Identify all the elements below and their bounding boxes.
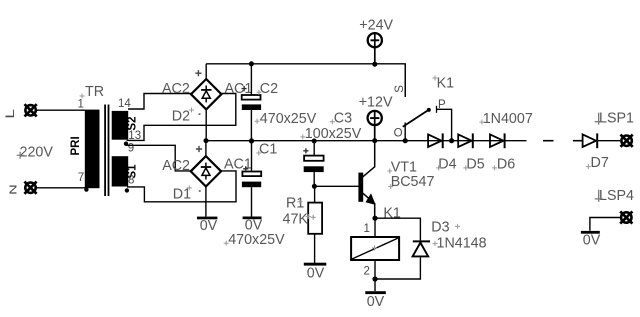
svg-text:8: 8 [128,175,134,187]
origin cross value C3 [300,134,305,139]
svg-text:D5: D5 [466,157,484,173]
wire +12V stub [374,111,376,140]
diode D4 [428,133,443,148]
polarity dot pin 8 [125,188,129,192]
svg-text:D4: D4 [438,157,456,173]
svg-text:47K: 47K [283,212,309,228]
svg-text:R1: R1 [286,196,304,212]
svg-text:D3: D3 [431,220,449,236]
relay contact K1 S stub [404,64,406,97]
svg-text:+12V: +12V [359,94,393,110]
origin cross C2 [256,90,261,95]
junction dot C1 top [249,138,254,143]
terminal pad L [25,104,37,116]
dash of broken wire [543,140,554,142]
svg-text:S2: S2 [127,117,139,131]
relay contact arm [403,110,429,127]
svg-text:+24V: +24V [359,18,393,34]
transistor VT1 [358,141,374,219]
origin cross D6 [492,165,497,170]
terminal pad N [24,182,36,194]
wire L to TR pin1 [37,109,86,111]
junction dot emitter node [372,216,377,221]
svg-text:1N4148: 1N4148 [437,235,487,251]
junction dot coil bottom [372,276,377,281]
origin cross value C2 [255,119,260,124]
svg-text:N: N [8,184,19,194]
junction dot +12V rail [372,138,377,143]
wire C3 to VT1 base [314,185,359,187]
wire D1 plus up to +12V node [205,141,207,156]
svg-text:D7: D7 [591,155,609,171]
polarity dot pin 13 [124,142,128,146]
origin cross coil [372,246,377,251]
bridge rectifier D2 [191,79,221,109]
coil diagonal [352,238,398,259]
diode D6 [490,133,505,148]
svg-text:470x25V: 470x25V [228,232,285,248]
svg-text:C3: C3 [334,111,352,127]
wire emitter node to coil pin 1 [374,218,376,237]
polarity + of C1 [243,166,248,171]
wire D2 plus to +24V rail [205,64,207,79]
power symbol +12V [368,111,382,125]
origin cross D2 [189,108,194,113]
wire coil pin 2 down [374,260,376,279]
svg-text:LSP1: LSP1 [599,111,634,127]
svg-text:AC2: AC2 [162,158,190,174]
origin cross VT1 [387,169,392,174]
relay contact O leg [404,123,406,141]
svg-text:0V: 0V [200,218,218,234]
svg-text:0V: 0V [583,232,601,248]
wire D7 anode [573,140,583,142]
origin cross 1N4007 [479,120,484,125]
wire D7 to LSP1 [598,140,620,142]
svg-text:1: 1 [78,99,84,111]
svg-text:TR: TR [85,84,104,100]
svg-text:9: 9 [128,142,134,154]
wire +24V rail [206,64,405,97]
origin cross D1 [187,185,192,190]
wire coil bottom to ground [374,279,376,291]
svg-text:220V: 220V [20,145,54,161]
junction dot +24V rail [372,62,377,67]
wire pin8 to bridge D1 AC1 [127,171,236,202]
wire D1 minus to ground [205,187,207,217]
svg-text:0V: 0V [307,266,325,282]
junction dot D4-P node [449,138,454,143]
pin label + of D2 [195,70,201,76]
svg-text:S: S [394,85,406,93]
svg-text:D1: D1 [173,186,191,202]
transformer secondary S1 winding [112,156,129,186]
svg-text:AC1: AC1 [224,157,252,173]
origin cross 47K label [306,214,311,219]
junction dot base node [312,184,317,189]
polarity + of C3 [303,148,308,153]
wire emitter node to D3 cathode [375,218,420,240]
svg-text:D6: D6 [497,157,515,173]
svg-text:BC547: BC547 [391,174,435,190]
origin cross TR [80,94,85,99]
svg-text:0V: 0V [367,294,385,310]
origin cross C3 [330,119,335,124]
origin cross 220V [17,152,24,159]
pin label - of D2 [199,113,201,115]
svg-text:1: 1 [364,223,370,235]
pin label - of D1 [199,190,201,192]
svg-text:470x25V: 470x25V [260,111,317,127]
svg-text:14: 14 [118,98,131,110]
origin cross value C1 [224,241,229,246]
svg-text:K1: K1 [437,76,455,92]
svg-text:2: 2 [364,265,370,277]
svg-text:K1: K1 [383,205,401,221]
capacitor C1 [242,141,261,217]
transformer secondary S2 winding [112,111,129,140]
relay contact P leg [437,109,452,140]
terminal pad LSP4 [620,211,632,223]
svg-text:7: 7 [78,172,84,184]
origin cross D7 [586,164,591,169]
relay coil K1 [351,237,399,260]
wire R1 bottom to ground [314,234,316,263]
diode D3 [413,241,430,256]
wire +12V main rail [206,140,527,142]
wire pin14 to bridge D2 AC2 [128,94,191,110]
origin cross D4 [436,165,441,170]
diode D7 [583,133,598,148]
plus inside +24V circle [371,39,380,41]
ground under LSP4 [581,231,600,234]
P pin tick [436,106,438,113]
wire R1 top [314,186,316,202]
transformer core lines [105,105,108,197]
ground under C1 [243,217,262,220]
ground under coil [365,291,386,294]
origin cross K1 contact [433,76,438,81]
svg-text:100x25V: 100x25V [305,126,362,142]
origin cross C1 [256,151,261,156]
svg-text:C2: C2 [260,81,278,97]
wire D2 minus down to +12V node [205,109,207,140]
svg-text:C1: C1 [259,142,277,158]
svg-text:AC2: AC2 [162,81,190,97]
terminal pad LSP1 [621,135,633,147]
wire LSP4 to ground [590,218,620,231]
svg-text:VT1: VT1 [391,159,417,175]
wire pin13 to bridge D2 AC1 [127,94,236,141]
node +12V junction dot [204,138,209,143]
capacitor C2 [242,64,261,141]
svg-text:L: L [4,109,17,119]
arm end dot [427,108,431,112]
origin cross LSP1 [595,113,603,125]
svg-text:PRI: PRI [70,136,82,155]
origin cross 1N4148 [433,241,438,246]
resistor R1 [308,203,322,234]
origin cross LSP4 [595,190,603,202]
power symbol +24V [368,33,382,47]
origin cross D5 [463,165,468,170]
junction dot C2 top [249,61,254,66]
capacitor C3 [304,141,324,186]
wire N to TR pin7 [36,187,85,189]
pin label + of D1 [196,146,202,152]
svg-text:D2: D2 [172,109,190,125]
origin cross BC547 [388,184,393,189]
wire coil bottom to D3 anode [375,258,420,280]
bridge rectifier D1 [191,156,221,186]
origin cross D3 [455,224,460,229]
svg-text:O: O [394,128,403,140]
origin cross R1 label [298,199,303,204]
svg-text:1N4007: 1N4007 [483,111,533,127]
origin cross R1 [311,215,316,220]
wire pin9 to bridge D1 AC2 [126,145,192,171]
polarity dot pin 7 [84,187,88,191]
plus inside +12V circle [370,117,379,119]
wire +24V stub [374,34,376,65]
ground under D1 [197,217,217,220]
diode D5 [458,133,473,148]
transformer TR primary winding [85,110,100,189]
svg-text:LSP4: LSP4 [599,188,634,204]
polarity + of C2 [242,86,247,91]
junction dot O node [403,138,408,143]
junction dot C3 top [312,139,317,144]
ground under R1 [304,263,327,266]
